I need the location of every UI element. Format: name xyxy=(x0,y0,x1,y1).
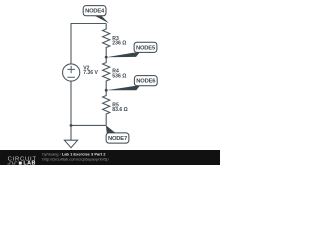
node NODE6 callout xyxy=(106,76,157,91)
CircuitLab logo waveform xyxy=(7,162,17,164)
junction node between R3 and R4 xyxy=(105,56,108,59)
svg-text:536 Ω: 536 Ω xyxy=(112,73,126,79)
svg-text:NODE6: NODE6 xyxy=(136,79,156,85)
node NODE7 callout xyxy=(106,125,129,143)
wire left vertical (V2 - to bottom rail) xyxy=(70,81,72,126)
ground xyxy=(64,126,77,148)
wire left vertical (top, to V2 +) xyxy=(70,23,72,64)
voltage source V2 xyxy=(63,64,80,81)
svg-text:NODE7: NODE7 xyxy=(108,136,127,142)
node NODE5 callout xyxy=(106,42,157,57)
wire top horizontal xyxy=(71,23,106,25)
footer bar xyxy=(0,150,220,165)
svg-text:7.36 V: 7.36 V xyxy=(83,70,98,76)
node NODE4 callout xyxy=(83,6,109,24)
wire bottom horizontal xyxy=(71,124,106,126)
junction node at ground rail xyxy=(70,124,73,127)
svg-text:LAB: LAB xyxy=(23,161,35,165)
svg-text:NODE5: NODE5 xyxy=(136,45,156,51)
resistor R4 xyxy=(103,57,110,90)
svg-text:236 Ω: 236 Ω xyxy=(112,41,126,47)
resistor R3 xyxy=(103,24,110,58)
svg-text:http://circuitlab.com/c/cp6apa: http://circuitlab.com/c/cp6apaxpnbr5p xyxy=(42,156,109,161)
resistor R5 xyxy=(103,90,110,125)
CircuitLab logo LAB xyxy=(19,161,36,167)
svg-text:NODE4: NODE4 xyxy=(85,9,105,15)
svg-text:83.6 Ω: 83.6 Ω xyxy=(112,107,127,113)
junction node between R4 and R5 xyxy=(105,89,108,92)
